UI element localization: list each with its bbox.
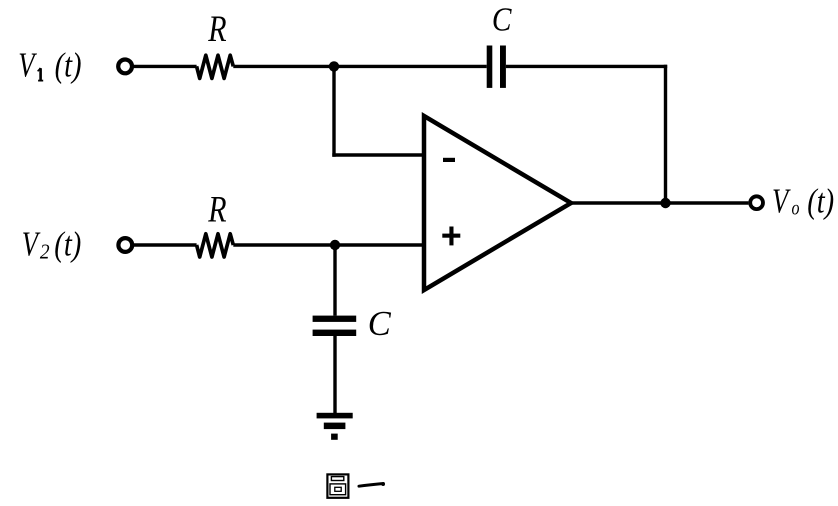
- svg-text:(t): (t): [807, 183, 834, 221]
- svg-text:2: 2: [40, 240, 50, 264]
- svg-text:(t): (t): [55, 46, 82, 84]
- svg-text:V: V: [772, 182, 791, 221]
- svg-text:R: R: [207, 190, 226, 231]
- svg-text:R: R: [207, 9, 226, 50]
- svg-text:V: V: [18, 45, 37, 84]
- svg-text:C: C: [492, 2, 512, 39]
- svg-text:C: C: [368, 305, 392, 343]
- svg-text:V: V: [22, 224, 41, 263]
- svg-text:(t): (t): [54, 225, 81, 263]
- svg-text:o: o: [792, 199, 800, 220]
